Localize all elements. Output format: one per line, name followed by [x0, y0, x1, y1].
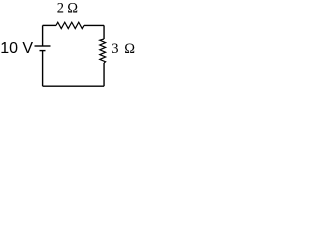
svg-text:2: 2	[57, 1, 64, 17]
wire left lower segment	[42, 51, 44, 86]
wire top-left segment	[43, 24, 56, 26]
resistor R2 3-ohm zigzag	[100, 39, 106, 63]
wire top-right segment	[84, 24, 104, 26]
svg-text:Ω: Ω	[124, 41, 135, 57]
wire right upper segment	[103, 25, 105, 39]
wire bottom segment	[43, 85, 104, 87]
svg-text:Ω: Ω	[67, 1, 78, 17]
battery V1 short plate	[40, 50, 46, 52]
svg-text:3: 3	[111, 41, 118, 57]
svg-text:10 V: 10 V	[0, 40, 33, 57]
wire right lower segment	[103, 63, 105, 86]
battery V1 long plate	[35, 45, 51, 47]
resistor R1 2-ohm zigzag	[56, 22, 84, 28]
wire left upper segment	[42, 25, 44, 45]
